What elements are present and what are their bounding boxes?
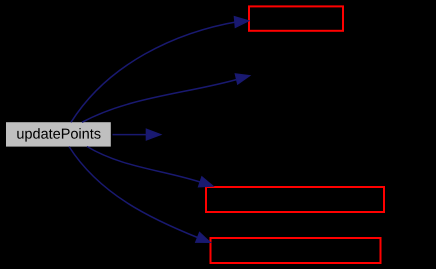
edge 3: updatePoints -> hidden node (horizontal) [113,129,162,140]
edge 4: updatePoints -> box 4 [87,147,213,188]
node box 4 (red border) [206,187,384,212]
edge 5: updatePoints -> box 5 [69,147,211,243]
node updatePoints (current node, grey fill) [6,122,111,146]
node box 1 (top, red border) [249,6,343,30]
edge 1: updatePoints -> top box [71,16,249,122]
edge 2: updatePoints -> hidden node (middle upper) [82,74,250,123]
node box 5 (bottom, red border) [211,238,381,263]
